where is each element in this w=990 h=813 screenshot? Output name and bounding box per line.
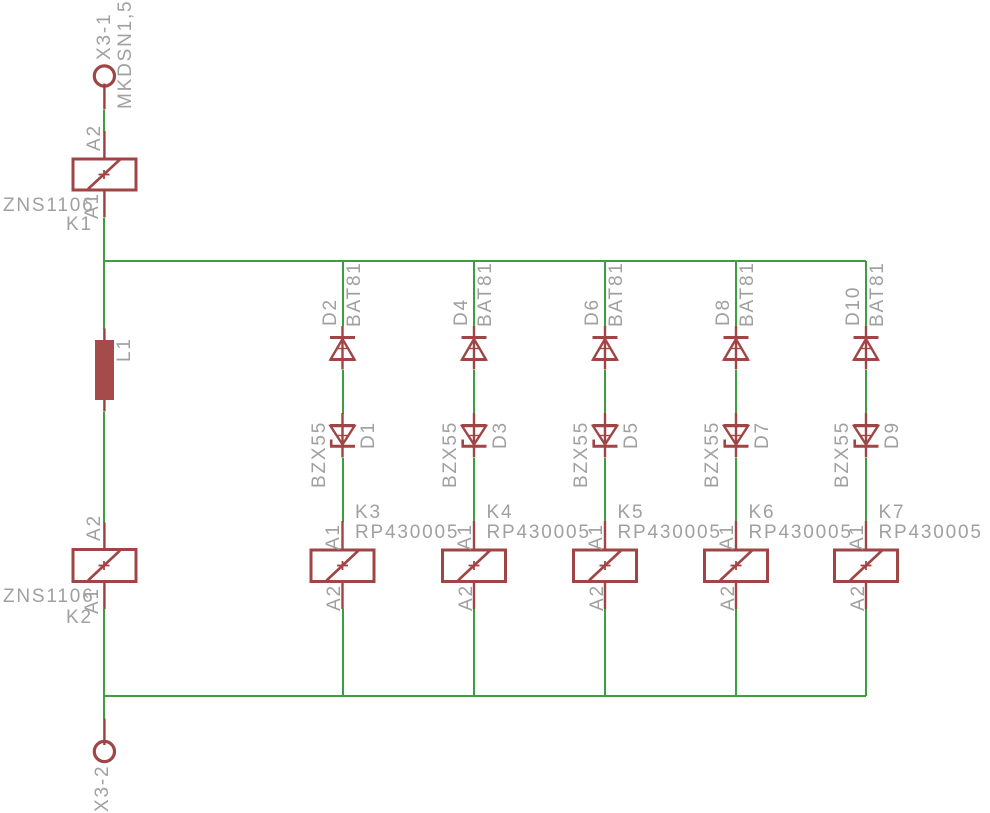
- pin anode of D7: [735, 413, 737, 425]
- pin A2 of K7: [865, 583, 867, 609]
- wire D10 to D9: [865, 370, 867, 414]
- label D5: [622, 421, 641, 449]
- label BAT81 value of D2: [345, 261, 364, 327]
- wire K6.A2 to bottom bus: [735, 609, 737, 696]
- wire K4.A2 to bottom bus: [473, 609, 475, 696]
- label K7: [879, 503, 906, 522]
- connector X3-2 pad circle: [94, 741, 114, 761]
- relay coil K6 plus mark: [731, 561, 742, 570]
- zener diode D7 BZX55 symbol: [724, 426, 749, 447]
- pin cathode of D9: [865, 446, 867, 457]
- pin A2 of K3: [341, 583, 343, 609]
- relay coil K1 diagonal: [88, 160, 120, 190]
- wire top bus to D2: [342, 261, 344, 326]
- label K2: [66, 608, 93, 627]
- pin cathode of D5: [604, 446, 606, 457]
- pin A1 of K3: [341, 521, 343, 549]
- label X3-1: [95, 13, 114, 60]
- relay coil K1 plus mark: [99, 170, 110, 179]
- wire D1 to K3.A1: [342, 458, 344, 522]
- label BZX55 value of D5: [572, 421, 591, 488]
- pin A2 of K5: [604, 583, 606, 609]
- label BZX55 value of D1: [310, 421, 329, 488]
- relay coil K6 diagonal: [720, 551, 752, 581]
- label K1: [66, 215, 93, 234]
- pin label A2 of K2: [85, 514, 104, 541]
- label RP430005 value of K5: [618, 523, 722, 542]
- label D8: [714, 298, 733, 326]
- wire D9 to K7.A1: [865, 458, 867, 522]
- label D9: [883, 421, 902, 449]
- relay coil K4 plus mark: [469, 561, 480, 570]
- pin A1 of K2: [103, 583, 105, 609]
- label BAT81 value of D8: [738, 261, 757, 327]
- pin label A1 of K2: [83, 587, 102, 614]
- pin cathode of D1: [341, 446, 343, 457]
- pin anode of D1: [341, 413, 343, 425]
- wire K5.A2 to bottom bus: [604, 609, 606, 696]
- diode D8 BAT81 symbol: [724, 338, 749, 360]
- label RP430005 value of K4: [487, 523, 591, 542]
- label RP430005 value of K7: [879, 523, 983, 542]
- label RP430005 value of K6: [749, 523, 853, 542]
- wire D7 to K6.A1: [735, 458, 737, 522]
- label K3: [355, 503, 382, 522]
- pin 2 of L1: [103, 400, 105, 412]
- wire top bus to D10: [865, 261, 867, 326]
- pin cathode of D8: [735, 326, 737, 338]
- label D2: [321, 298, 340, 326]
- pin anode of D3: [473, 413, 475, 425]
- relay coil K7 plus mark: [861, 561, 872, 570]
- wire bottom bus net: [104, 695, 866, 697]
- label L1: [115, 337, 134, 362]
- relay coil K2 diagonal: [88, 551, 120, 581]
- label RP430005 value of K3: [355, 523, 459, 542]
- pin wire of X3-2: [103, 719, 105, 746]
- label ZNS1106 value of K1: [3, 196, 94, 215]
- wire D8 to D7: [735, 370, 737, 414]
- relay coil K4 diagonal: [458, 551, 490, 581]
- pin label A2 of K3: [325, 584, 344, 611]
- pin A2 of K2: [103, 523, 105, 549]
- label K5: [618, 503, 645, 522]
- pin label A1 of K5: [587, 523, 606, 550]
- label D7: [753, 421, 772, 449]
- wire D6 to D5: [604, 370, 606, 414]
- diode D2 BAT81 symbol: [330, 338, 355, 360]
- pin cathode of D10: [865, 326, 867, 338]
- label BAT81 value of D6: [607, 261, 626, 327]
- pin label A1 of K3: [324, 523, 343, 550]
- pin A1 of K1: [103, 192, 105, 218]
- zener diode D3 BZX55 symbol: [462, 426, 487, 447]
- pin label A1 of K4: [456, 523, 475, 550]
- pin A2 of K4: [473, 583, 475, 609]
- relay coil K6 body: [705, 550, 768, 582]
- pin A2 of K1: [103, 131, 105, 158]
- relay coil K1 body: [73, 159, 136, 190]
- pin anode of D6: [604, 360, 606, 370]
- pin anode of D9: [865, 413, 867, 425]
- wire K7.A2 to bottom bus: [865, 609, 867, 696]
- label K6: [749, 503, 776, 522]
- relay coil K4 body: [443, 550, 506, 582]
- wire net L1 to K2.A2: [103, 412, 105, 523]
- diode D6 BAT81 symbol: [593, 338, 618, 360]
- diode D10 BAT81 symbol: [854, 338, 879, 360]
- pin cathode of D7: [735, 446, 737, 457]
- relay coil K7 diagonal: [850, 551, 882, 581]
- pin 1 of L1: [103, 329, 105, 341]
- pin cathode of D4: [473, 326, 475, 338]
- pin anode of D2: [341, 360, 343, 370]
- label MKDSN1,5 value of X3: [116, 0, 135, 109]
- pin anode of D10: [865, 360, 867, 370]
- label D4: [452, 298, 471, 326]
- wire D5 to K5.A1: [604, 458, 606, 522]
- pin label A2 of K4: [457, 584, 476, 611]
- relay coil K7 body: [835, 550, 898, 582]
- wire top bus net: [104, 260, 866, 262]
- relay coil K3 plus mark: [337, 561, 348, 570]
- zener diode D9 BZX55 symbol: [854, 426, 879, 447]
- pin cathode of D2: [341, 326, 343, 338]
- label D10: [844, 286, 863, 326]
- label BZX55 value of D9: [833, 421, 852, 488]
- pin wire of X3-1: [103, 84, 105, 110]
- zener diode D1 BZX55 symbol: [330, 426, 355, 447]
- pin A1 of K6: [735, 521, 737, 549]
- pin cathode of D3: [473, 446, 475, 457]
- pin label A2 of K7: [849, 584, 868, 611]
- relay coil K5 diagonal: [589, 551, 621, 581]
- label X3-2: [93, 765, 112, 812]
- label D1: [359, 421, 378, 449]
- label BZX55 value of D3: [441, 421, 460, 488]
- relay coil K2 body: [73, 550, 136, 582]
- pin A2 of K6: [735, 583, 737, 609]
- label K4: [487, 503, 514, 522]
- diode D4 BAT81 symbol: [462, 338, 487, 360]
- pin anode of D8: [735, 360, 737, 370]
- wire K3.A2 to bottom bus: [342, 609, 344, 696]
- zener diode D5 BZX55 symbol: [593, 426, 618, 447]
- wire top bus to D6: [604, 261, 606, 326]
- pin anode of D4: [473, 360, 475, 370]
- label BAT81 value of D4: [476, 261, 495, 327]
- wire top bus to D4: [473, 261, 475, 326]
- pin label A2 of K1: [85, 124, 104, 151]
- wire net X3-1 to K1.A2: [103, 110, 105, 132]
- relay coil K2 plus mark: [99, 561, 110, 570]
- pin A1 of K4: [473, 521, 475, 549]
- pin label A1 of K1: [83, 192, 102, 219]
- pin label A2 of K5: [588, 584, 607, 611]
- pin anode of D5: [604, 413, 606, 425]
- wire net K2.A1 down to X3-2 (through bottom bus junction): [103, 609, 105, 719]
- wire D4 to D3: [473, 370, 475, 414]
- pin A1 of K5: [604, 521, 606, 549]
- wire top bus to D8: [735, 261, 737, 326]
- relay coil K3 diagonal: [327, 551, 359, 581]
- label D3: [491, 421, 510, 449]
- inductor L1 body: [95, 340, 114, 400]
- pin A1 of K7: [865, 521, 867, 549]
- label BZX55 value of D7: [703, 421, 722, 488]
- wire net K1.A1 down to L1 (through top bus junction): [103, 218, 105, 329]
- label ZNS1106 value of K2: [3, 587, 94, 606]
- connector X3-1 pad circle: [94, 66, 114, 86]
- pin label A2 of K6: [719, 584, 738, 611]
- pin label A1 of K6: [718, 523, 737, 550]
- label D6: [583, 298, 602, 326]
- label BAT81 value of D10: [868, 261, 887, 327]
- wire D2 to D1: [342, 370, 344, 414]
- pin cathode of D6: [604, 326, 606, 338]
- relay coil K5 body: [574, 550, 637, 582]
- relay coil K5 plus mark: [600, 561, 611, 570]
- relay coil K3 body: [311, 550, 374, 582]
- wire D3 to K4.A1: [473, 458, 475, 522]
- pin label A1 of K7: [848, 523, 867, 550]
